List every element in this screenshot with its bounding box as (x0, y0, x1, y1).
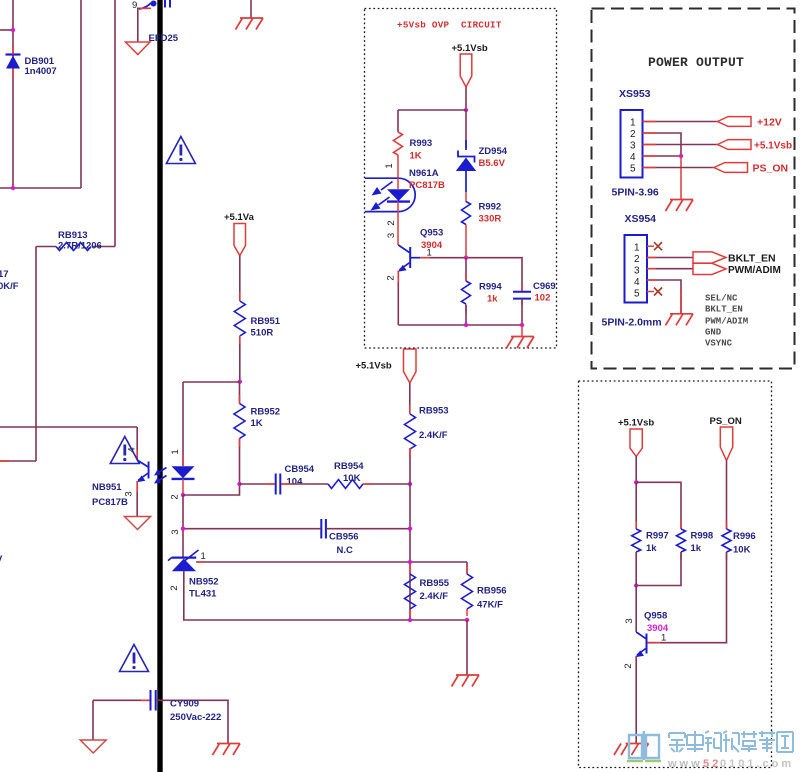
wire XS954 pin4 to gnd (647, 280, 681, 314)
zener ZD954 (456, 110, 476, 202)
svg-text:+12V: +12V (757, 117, 782, 129)
svg-text:PC817B: PC817B (409, 180, 445, 191)
wire y482 R997/R998 top (636, 482, 681, 529)
wire Q958 base to R996 (656, 552, 727, 643)
node junction dot (466,325) (464, 323, 468, 327)
wire horizontal y461 to left edge (0, 460, 36, 462)
svg-text:CB954: CB954 (285, 464, 315, 475)
resistor RB952 (234, 382, 245, 484)
svg-text:PS_ON: PS_ON (753, 163, 789, 175)
svg-text:RB952: RB952 (251, 407, 281, 418)
node junction dot (410,528.7) (408, 527, 412, 531)
node junction dot (522,325) (520, 323, 524, 327)
wire XS954 pin1 nc (647, 245, 654, 247)
wire horizontal y382 to LED branch (183, 381, 240, 383)
svg-text:1: 1 (201, 551, 206, 562)
svg-text:9: 9 (132, 0, 137, 11)
svg-text:POWER OUTPUT: POWER OUTPUT (648, 55, 744, 70)
wire LED chain 495 to 528.7 (182, 495, 184, 557)
svg-text:R994: R994 (479, 282, 502, 293)
node junction dot (183,495) pin2 (181, 493, 185, 497)
node junction dot (13,188) (11, 186, 15, 190)
svg-text:VSYNC: VSYNC (705, 339, 733, 349)
power flag +5.1Vsb mid (356, 349, 417, 383)
svg-text:XS954: XS954 (625, 213, 657, 225)
svg-text:3: 3 (634, 266, 640, 277)
POWER OUTPUT dashed box (592, 9, 795, 369)
wire pin9 to ground (138, 8, 151, 42)
power flag +5.1Va (224, 212, 255, 256)
resistor R998 (677, 521, 686, 560)
wire to OVP ground (521, 325, 523, 337)
transistor Q953 (398, 245, 420, 325)
svg-text:2: 2 (634, 254, 640, 265)
svg-text:EFD25: EFD25 (149, 33, 179, 44)
node junction dot (466,110) (464, 108, 468, 112)
svg-text:1K: 1K (410, 151, 422, 162)
svg-text:2: 2 (170, 494, 181, 499)
node junction dot (636,585.5) (634, 583, 638, 587)
watermark url www.520101.com (667, 758, 794, 770)
svg-text:0K/F: 0K/F (0, 281, 19, 292)
optocoupler NB951 phototransistor (137, 427, 150, 516)
wire y325 OVP bottom row (398, 324, 522, 326)
svg-text:N961A: N961A (409, 168, 439, 179)
capacitor C969 (513, 285, 531, 325)
node junction dot (466,257.7) (464, 256, 468, 260)
svg-text:5PIN-2.0mm: 5PIN-2.0mm (602, 317, 662, 329)
svg-text:RB955: RB955 (420, 578, 450, 589)
ground triangle below NB951 (125, 517, 151, 530)
wire vertical x115 from top to RB913 (114, 0, 116, 247)
node junction dot (410,562) (408, 560, 412, 564)
svg-text:N.C: N.C (337, 545, 354, 556)
node junction dot (410,620) (408, 618, 412, 622)
wire XS953 pin2 to gnd branch (643, 133, 682, 156)
wire flag to node (465, 87, 467, 110)
svg-text:1: 1 (630, 118, 636, 129)
no-connect X pin5 (654, 288, 662, 296)
svg-text:2.4K/F: 2.4K/F (420, 591, 449, 602)
svg-text:1k: 1k (487, 294, 498, 305)
optocoupler N961A (365, 178, 415, 212)
svg-text:52: 52 (703, 758, 721, 770)
svg-text:B5.6V: B5.6V (479, 158, 506, 169)
wire horizontal y427 opto pin4 (0, 426, 137, 428)
wire NB952 ref to RB956 y562 (196, 561, 467, 563)
svg-text:17: 17 (0, 269, 9, 280)
svg-text:+5.1Vsb: +5.1Vsb (356, 361, 392, 372)
power flag PS_ON lower (720, 427, 732, 461)
flag BKLT_EN (693, 252, 726, 263)
svg-text:510R: 510R (251, 328, 274, 339)
svg-text:ZD954: ZD954 (479, 146, 508, 157)
wire stub left at y30 (0, 29, 13, 31)
wire flag to RB953 (409, 383, 411, 414)
watermark chinese characters (669, 731, 793, 752)
ground chassis XS954 (666, 314, 694, 326)
warning triangle top (166, 137, 195, 164)
node junction dot (636,482.3) (634, 480, 638, 484)
ground chassis XS953 (666, 200, 694, 212)
svg-text:10K: 10K (733, 545, 751, 556)
svg-text:NB951: NB951 (92, 482, 122, 493)
power flag +5.1Vsb lower (630, 429, 642, 457)
wire XS954 pin3 to PWM/ADIM (647, 268, 693, 270)
svg-text:3: 3 (124, 491, 135, 496)
wire RB951 to node (239, 336, 241, 382)
svg-text:RB951: RB951 (251, 316, 281, 327)
wire vertical x81 (80, 0, 82, 188)
resistor RB955 (405, 565, 416, 616)
transformer winding end (blue dot and arc) (139, 0, 170, 9)
watermark book icon (627, 731, 661, 761)
svg-text:330R: 330R (479, 214, 502, 225)
svg-text:+5.1Vsb: +5.1Vsb (754, 141, 792, 152)
svg-text:1: 1 (384, 163, 395, 168)
svg-text:R997: R997 (646, 531, 669, 542)
optocoupler NB951 light arrows (154, 468, 167, 484)
svg-text:PC817B: PC817B (92, 497, 128, 508)
svg-text:TL431: TL431 (189, 589, 217, 600)
svg-text:1n4007: 1n4007 (25, 66, 57, 77)
svg-text:CY909: CY909 (170, 699, 199, 710)
ground chassis below RB956 (452, 675, 480, 687)
wire XS953 pin3 to +5.1Vsb (643, 144, 718, 146)
svg-text:1k: 1k (646, 543, 657, 554)
power flag +5.1Vsb out (718, 140, 752, 150)
wire vertical x36 down from RB913 (35, 247, 37, 462)
capacitor CB956 (321, 519, 326, 539)
wire +5.1Vsb flag down (635, 457, 637, 483)
svg-text:3: 3 (630, 141, 636, 152)
capacitor CB954 (276, 474, 281, 495)
svg-text:2: 2 (623, 663, 634, 668)
svg-text:5: 5 (630, 164, 636, 175)
svg-text:3: 3 (386, 233, 397, 238)
svg-text:2.4K/F: 2.4K/F (419, 430, 448, 441)
svg-text:2: 2 (630, 129, 636, 140)
svg-text:PWM/ADIM: PWM/ADIM (728, 265, 781, 276)
svg-text:+5.1Vsb: +5.1Vsb (452, 43, 488, 54)
wire y495 LED cathode to RB952 branch (183, 484, 240, 495)
wire y110 node to R993 (398, 110, 466, 132)
wire +5.1Va down to RB951 (239, 256, 241, 301)
connector XS954 (625, 235, 648, 303)
svg-text:SEL/NC: SEL/NC (705, 294, 738, 304)
node junction dot (410,484) (408, 482, 412, 486)
wire Q953 base y257.7 (420, 258, 522, 292)
wire PS_ON flag down to R996 (726, 461, 728, 529)
svg-text:3: 3 (170, 529, 181, 534)
ground chassis OVP (507, 337, 535, 349)
wire opto pin2 to Q953 (397, 212, 399, 245)
node junction dot (467,620) (465, 618, 469, 622)
svg-text:3: 3 (624, 618, 635, 623)
resistor R994 (462, 258, 471, 325)
flag PWM/ADIM (693, 263, 726, 274)
transistor Q958 (635, 632, 656, 744)
ground chassis top (236, 18, 264, 30)
svg-text:0101.com: 0101.com (720, 758, 794, 770)
svg-text:1: 1 (427, 248, 432, 259)
resistor R997 (632, 482, 641, 560)
svg-text:3904: 3904 (421, 240, 443, 251)
wire top chassis stub x251 (250, 0, 252, 18)
ground EFD25 triangle (126, 42, 151, 55)
svg-text:+5.1Va: +5.1Va (224, 212, 255, 223)
warning triangle near CY909 (120, 645, 149, 672)
svg-text:47K/F: 47K/F (477, 600, 503, 611)
svg-text:PS_ON: PS_ON (710, 416, 742, 427)
svg-text:5PIN-3.96: 5PIN-3.96 (612, 187, 659, 199)
wire XS953 pin4 to gnd branch (643, 155, 682, 157)
svg-text:2: 2 (169, 585, 180, 590)
svg-text:102: 102 (535, 293, 551, 304)
svg-text:1: 1 (634, 243, 640, 254)
wire RB953 down long vertical (409, 448, 411, 620)
wire horizontal y188 (0, 187, 81, 189)
wire XS953 pin1 to +12V (643, 121, 718, 123)
svg-text:GND: GND (705, 328, 722, 338)
wire CB954 to RB954 (281, 483, 328, 485)
svg-text:RB953: RB953 (419, 406, 449, 417)
diode DB901 (6, 46, 21, 78)
power flag +5.1Vsb OVP (452, 43, 488, 87)
svg-text:+5Vsb OVP CIRCUIT: +5Vsb OVP CIRCUIT (397, 20, 502, 31)
node junction dot (681,156) (679, 154, 683, 158)
isolation barrier thick line (157, 0, 162, 772)
svg-text:1k: 1k (691, 543, 702, 554)
svg-text:2: 2 (386, 275, 397, 280)
resistor RB956 (462, 562, 473, 616)
svg-text:RB956: RB956 (477, 586, 507, 597)
resistor RB953 (405, 414, 416, 449)
svg-text:5: 5 (634, 289, 640, 300)
svg-text:1K: 1K (251, 418, 263, 429)
svg-text:R993: R993 (410, 138, 433, 149)
wire XS954 pin2 to BKLT_EN (647, 257, 693, 259)
svg-text:NB952: NB952 (189, 577, 219, 588)
svg-text:10K: 10K (343, 473, 361, 484)
svg-text:BKLT_EN: BKLT_EN (705, 305, 743, 315)
resistor R993 (394, 132, 403, 155)
svg-text:4: 4 (634, 277, 640, 288)
warning triangle at NB951 (110, 437, 139, 464)
resistor RB913 (36, 243, 115, 251)
optocoupler NB951 LED (172, 466, 195, 495)
node junction dot (239.8,381.7) (238, 380, 242, 384)
svg-text:2.7R/1206: 2.7R/1206 (58, 241, 102, 252)
wire R992 to base node (465, 225, 467, 258)
wire XS953 pin5 to PS_ON (643, 167, 715, 169)
ground chassis CY909 right (213, 744, 241, 756)
wire XS954 pin5 nc (647, 291, 654, 293)
svg-text:R998: R998 (691, 531, 714, 542)
svg-text:R996: R996 (733, 531, 756, 542)
node junction dot (183,528.7) (181, 527, 185, 531)
regulator NB952 TL431 (168, 550, 199, 583)
svg-text:XS953: XS953 (619, 88, 651, 100)
power flag +12V (718, 117, 752, 127)
svg-text:CB956: CB956 (329, 532, 359, 543)
wire RB956 bottom to ground (466, 620, 468, 675)
PS_ON control dashed box (579, 381, 772, 768)
wire y484 to CB954 (240, 483, 275, 485)
svg-text:1: 1 (661, 633, 666, 644)
ground chassis Q958 (614, 744, 649, 756)
svg-text:104: 104 (287, 477, 304, 488)
svg-text:C969: C969 (533, 281, 556, 292)
wire y585 R997/R998 bottom (636, 552, 681, 586)
wire primary left vertical x13 (12, 0, 14, 188)
svg-text:2: 2 (386, 220, 397, 225)
wire gnd branch down (680, 156, 682, 200)
svg-text:RB913: RB913 (58, 230, 88, 241)
svg-text:Q958: Q958 (644, 611, 667, 622)
ground triangle CY909 (80, 740, 106, 753)
capacitor CY909 (93, 690, 228, 744)
svg-text:250Vac-222: 250Vac-222 (170, 712, 221, 723)
wire R993 to opto (397, 155, 399, 178)
svg-text:1: 1 (170, 449, 181, 454)
wire CY909 left to ground (92, 700, 94, 740)
node junction dot (13,30) (11, 28, 15, 32)
svg-text:+5.1Vsb: +5.1Vsb (618, 418, 654, 429)
wire y528.7 CB956 row (183, 528, 410, 530)
svg-text:Q953: Q953 (420, 228, 443, 239)
resistor R996 (722, 521, 731, 560)
resistor RB951 (234, 301, 245, 336)
OVP circuit dashed box (365, 9, 557, 349)
resistor R992 (462, 202, 471, 225)
svg-text:PWM/ADIM: PWM/ADIM (705, 317, 748, 327)
svg-text:4: 4 (630, 152, 636, 163)
svg-text:BKLT_EN: BKLT_EN (728, 253, 776, 265)
svg-text:R992: R992 (479, 202, 502, 213)
wire RB954 to node (363, 483, 410, 485)
connector XS953 (621, 110, 643, 178)
resistor RB954 (328, 480, 363, 489)
wire LED branch vertical upper (182, 382, 184, 466)
no-connect X pin1 (654, 242, 662, 250)
wire down to Q958 (635, 552, 637, 632)
svg-text:RB954: RB954 (334, 461, 364, 472)
wire NB952 anode down and y620 row (184, 571, 467, 620)
power flag PS_ON out (714, 163, 748, 173)
node junction dot (239.5,484) (237, 482, 241, 486)
